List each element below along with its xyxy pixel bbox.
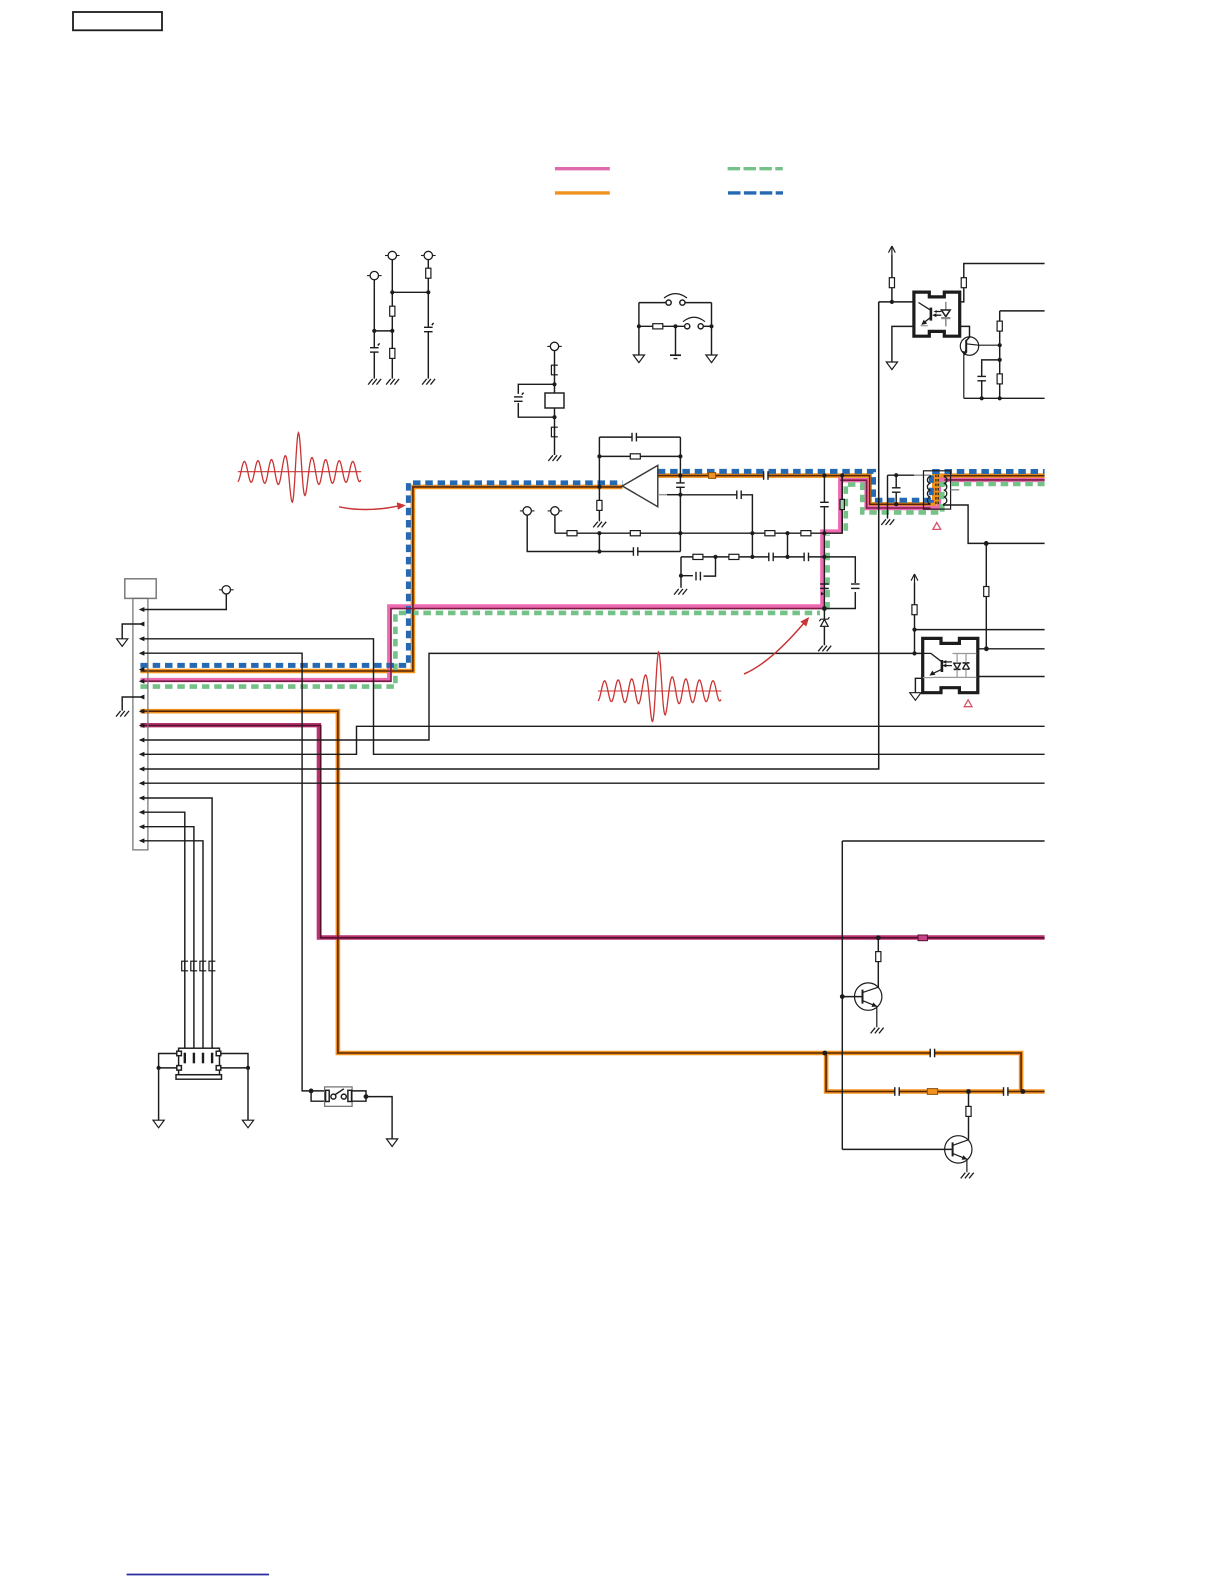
green dashed highlight along bundle through transformer to right edge (848, 484, 1045, 513)
optocoupler PC1 package (914, 292, 960, 336)
PC1 emitter gray tick (921, 325, 928, 327)
ferrite bead L2 on jack line (191, 961, 197, 971)
node J mid (673, 324, 677, 328)
wire node A1 to node A2 (374, 330, 392, 332)
terminal A2 (385, 251, 400, 259)
Q1 emitter arrowhead (962, 351, 967, 356)
node resistor bottom (998, 396, 1002, 400)
ground (signal) PC1 (886, 362, 897, 370)
node op-amp output (597, 485, 601, 489)
ground (earth bar) J mid (670, 354, 681, 356)
node pin13 (139, 781, 145, 786)
wire Q2 collector (877, 938, 879, 987)
node pink bottom corner (822, 606, 827, 611)
resistor bias rail mid (765, 531, 775, 536)
wire pin2 to signal ground (122, 624, 140, 639)
transformer core dashed lines (936, 475, 938, 506)
node row2 c (785, 555, 789, 559)
red arrow to RX path (744, 623, 804, 674)
node orange line to Q3 collector (966, 1089, 971, 1094)
PC1 emitter arrowhead (921, 320, 927, 325)
transformer secondary winding (944, 477, 947, 504)
resistor row2 mid (729, 554, 739, 559)
node orange loop left (822, 1051, 827, 1056)
jack left mount pad upper (177, 1051, 182, 1056)
node pin15 (139, 810, 145, 815)
hook switch left pad (326, 1090, 330, 1101)
node filter cap bottom (980, 396, 984, 400)
node row2 a (713, 555, 717, 559)
waveform sketch lower (598, 652, 721, 721)
ground (signal) below jack right (242, 1120, 253, 1128)
Q3 collector inner line (953, 1140, 969, 1146)
node pin11 (139, 752, 145, 757)
Q3 base bar (952, 1142, 954, 1156)
wire PC2 supply (914, 583, 916, 653)
node J left (637, 324, 641, 328)
wire pin4 down to hook switch (140, 653, 311, 1091)
capacitor row2 mid (769, 552, 773, 562)
dark core of orange input/transformer path (658, 476, 1045, 505)
node pin1 (139, 607, 145, 612)
resistor on that vertical (984, 587, 989, 597)
wire bottom rail to edge (964, 397, 1045, 399)
node pin12 (139, 767, 145, 772)
ground (signal) below hook switch (387, 1139, 398, 1147)
wire cap line below input2 (680, 495, 752, 533)
wire into hook switch left side (311, 1091, 326, 1101)
wire node to resistor to node (639, 325, 685, 327)
node input line to pink branch (840, 473, 844, 477)
resistor Q2 collector (876, 952, 881, 962)
node Q1 collector (998, 343, 1002, 347)
capacitor RC loop (696, 571, 700, 581)
PC2 diode right bar (963, 662, 970, 664)
wire Q3 collector (968, 1092, 970, 1140)
wire right branch down (711, 303, 713, 355)
wire ground stem (887, 475, 889, 518)
warning triangle below PC2 (964, 700, 972, 707)
op-amp input2 stub (658, 494, 667, 496)
wire input2 stub to vertical (667, 494, 680, 496)
Q3 emitter arrowhead (962, 1155, 968, 1160)
node fb right (678, 454, 682, 458)
pink highlight: branch along input bundle through transformer to right edge (840, 480, 1044, 508)
node bias rail end (822, 531, 826, 535)
wire RC corner to ground (680, 576, 682, 588)
connector CN body (133, 598, 148, 850)
legend blue dashed line (728, 191, 783, 194)
node pin2 (139, 622, 145, 627)
capacitor line shunt (891, 488, 901, 492)
wire pin14 down to modular jack (140, 798, 212, 1048)
crimson bead on long crimson line (918, 935, 927, 941)
wire PC1 cathode side to ground (892, 326, 914, 362)
filter row2 wire (681, 557, 855, 609)
node input2 junction (678, 493, 682, 497)
ground (chassis) left of pin7 (116, 711, 129, 717)
wire shunt branch down (823, 476, 825, 534)
modular jack base plate (176, 1075, 222, 1080)
PC1 light arrows (935, 312, 941, 316)
wire filter cap branch (982, 360, 1000, 398)
ferrite bead L1 on jack line (182, 961, 188, 971)
wire PC2 right top to edge (978, 648, 1045, 650)
node orange loop right (1021, 1089, 1026, 1094)
PC1 LED triangle (941, 310, 950, 317)
node crimson to Q2 collector (876, 935, 881, 940)
red arrowhead RX (800, 617, 809, 627)
wire parallel capacitor loop (518, 384, 554, 417)
transformer centre tap stub (951, 489, 960, 491)
resistor branch A2 upper (390, 306, 395, 316)
ground (signal) below jack left (153, 1120, 164, 1128)
node bias rail at left vertical (597, 531, 601, 535)
wire branch A2 (391, 260, 393, 379)
blue dashed highlight: op-amp input line through transformer to right edge (658, 471, 1045, 500)
ground (chassis) transformer primary (881, 519, 894, 525)
dark core of crimson pin9 path (140, 726, 1044, 938)
red arrowhead TX (397, 502, 406, 509)
ground (chassis) below output divider (593, 522, 606, 528)
node J right (709, 324, 713, 328)
surge element upper (551, 365, 557, 375)
capacitor branch A3 (424, 327, 434, 331)
Q1 collector line (966, 344, 1000, 345)
green dashed highlight up the pink branch (828, 485, 846, 610)
hook switch lever (335, 1089, 344, 1095)
orange bead on bottom orange line (927, 1089, 937, 1095)
node pin5 (139, 667, 145, 672)
legend green dashed line (728, 167, 783, 170)
Q1 base bar (965, 340, 967, 353)
hook switch right pad (348, 1090, 352, 1101)
PC1 phototransistor collector slant (919, 303, 930, 310)
wire pin1 to terminal (140, 594, 226, 610)
dark core of pink pin6 path (140, 477, 1044, 681)
PC2 diode gray frame (933, 654, 977, 678)
node B top (552, 382, 556, 386)
capacitor on T1 rail (633, 547, 637, 557)
wire pink branch with resistor (824, 476, 842, 534)
node PC2 right top (984, 646, 989, 651)
resistor pull-up (997, 321, 1002, 331)
node row2 on pink branch (822, 555, 826, 559)
ground (signal) J right (706, 355, 717, 363)
Q2 emitter inner line (863, 1001, 877, 1028)
jack left mount pad lower (177, 1066, 182, 1071)
node pin6 (139, 679, 145, 684)
PC2 emitter slant (931, 669, 942, 675)
node pin10 (139, 738, 145, 743)
op-amp right vertical (679, 437, 681, 551)
jack right mount pad lower (216, 1066, 221, 1071)
node pin8 (139, 709, 145, 714)
PC2 emitter gray rail (923, 677, 933, 679)
wire terminal T1 down and right rail (527, 515, 680, 551)
resistor PC2 supply (912, 605, 917, 615)
feedback second rail (599, 455, 680, 457)
capacitor filter (977, 376, 987, 380)
legend pink solid line (555, 167, 610, 170)
resistor branch A2 lower (390, 348, 395, 358)
ground (chassis) RC loop (674, 589, 687, 595)
op-amp U1 triangle (622, 465, 658, 506)
dark core of orange pin5 path (140, 487, 622, 671)
node fb left (597, 454, 601, 458)
supply arrow PC1 (889, 246, 896, 255)
warning triangle below transformer (933, 523, 941, 530)
ground (chassis) branch A3 (422, 379, 435, 385)
capacitor on lower orange line left (895, 1087, 899, 1097)
waveform sketch upper (238, 433, 361, 502)
resistor bias rail left (630, 531, 640, 536)
transformer T1 body box (924, 471, 951, 509)
node input line to shunt cap (822, 473, 826, 477)
PC2 phototransistor collector slant (923, 653, 941, 661)
node PC1 anode (890, 300, 894, 304)
resistor between jumpers (653, 324, 663, 329)
wire PC2 left cathode to ground (915, 678, 922, 692)
zener diode D1 (819, 617, 829, 626)
node bias rail at op-amp vertical (678, 531, 682, 535)
node hook switch input (309, 1089, 314, 1094)
varistor box (545, 393, 564, 408)
capacitor C-fb on top rail (632, 432, 636, 442)
PC1 LED top lead (945, 302, 947, 310)
capacitor inline on op-amp input line (764, 471, 768, 481)
wire node to PC1 and long vertical (879, 301, 914, 303)
wire jumper J1 to right branch (685, 302, 712, 304)
capacitor row2 right (804, 552, 808, 562)
wire jack right pads to ground (221, 1054, 248, 1121)
node pin17 (139, 838, 145, 843)
polarity tick branch A3 (432, 323, 434, 325)
ground (signal) J left (633, 355, 644, 363)
wire PC2 rail to edge (915, 629, 1045, 631)
node A1 (372, 329, 376, 333)
optocoupler PC2 package (923, 638, 978, 692)
wire left to jumper J1 (639, 302, 666, 304)
resistor lower right (997, 374, 1002, 384)
Q3 emitter inner line (953, 1153, 967, 1172)
footer blue rule (127, 1574, 269, 1576)
capacitor on right vertical (676, 483, 686, 487)
transformer interior orange column (935, 476, 940, 504)
node bias rail right (785, 531, 789, 535)
wire long vertical left (878, 302, 880, 769)
PC2 light arrows (946, 662, 952, 666)
wire pin11 route up to long line right (140, 726, 1044, 754)
surge element lower (551, 427, 557, 437)
orange highlight: connector pin8 wire down and along bottom to right edge (140, 711, 1021, 1091)
wire zener branch (823, 609, 825, 646)
hook switch SW1 outer box (325, 1087, 353, 1106)
node RC corner (679, 574, 683, 578)
resistor PC1 supply (889, 278, 894, 288)
hook switch contact circle left (331, 1094, 336, 1099)
PC1 emitter slant (922, 317, 931, 324)
resistor bias rail far left (567, 531, 577, 536)
wire jumper J2 to right node (703, 325, 711, 327)
wire primary ground line gray part (914, 474, 931, 476)
ground (chassis) branch A2 (386, 379, 399, 385)
node pin4 (139, 651, 145, 656)
wire jack left pads to ground (159, 1054, 177, 1121)
feedback top rail (599, 436, 680, 438)
resistor on pink branch (green) (840, 499, 844, 509)
resistor below output node (597, 500, 602, 510)
PC2 light arrowheads (942, 660, 946, 667)
wire short vertical between rails (598, 533, 600, 551)
node on lower line (984, 541, 989, 546)
terminal T1 (520, 507, 535, 515)
ground (signal) PC2 (910, 693, 921, 701)
page corner reference box (73, 12, 162, 30)
node shunt cap bottom (894, 502, 898, 506)
terminal above pin 1 (219, 586, 234, 594)
ground (earth bar) J mid lower tick (674, 358, 678, 360)
wire secondary bottom to lower line (944, 504, 1045, 544)
jack pin blade 2 (193, 1053, 195, 1064)
node T1 rail at left vertical (597, 549, 601, 553)
wire pink branch lower (823, 533, 825, 608)
ground (chassis) Q2 emitter (871, 1028, 884, 1034)
wire pin16 down to modular jack (140, 827, 194, 1048)
orange highlight: op-amp input line through line transformer to right edge (658, 476, 1045, 505)
PC2 diode left bar (954, 668, 961, 670)
transformer primary winding (927, 477, 930, 504)
Q2 emitter arrowhead (872, 1002, 878, 1007)
node jack left ground junction (157, 1066, 161, 1070)
node bias rail mid (750, 531, 754, 535)
resistor Q3 collector (966, 1106, 971, 1116)
wire pin13 long line to edge (140, 782, 1044, 784)
connector CN top shell box (125, 579, 156, 599)
PC2 diode left triangle (954, 663, 961, 669)
vertical row1-row2 link right (787, 533, 789, 557)
red arrow to TX path (339, 506, 398, 509)
jack pin blade 4 (211, 1053, 213, 1064)
green dashed highlight along pink pin6 path (140, 613, 820, 687)
orange highlight: lower branch of bottom orange loop (826, 1053, 1045, 1092)
node pin14 (139, 796, 145, 801)
right pull-up vertical (1000, 311, 1045, 398)
ground (signal) left of pin2 (117, 639, 128, 647)
jumper J1 right pin (680, 300, 685, 305)
jumper J2 left pin (685, 324, 690, 329)
node pin7 (139, 695, 145, 700)
crimson highlight: connector pin9 wire down and long line to right edge (140, 725, 1044, 937)
transistor Q1 circle (960, 337, 978, 355)
ground (chassis) Q3 emitter (961, 1173, 974, 1179)
terminal B1 (547, 342, 562, 350)
PC1 phototransistor bar (930, 308, 933, 321)
ground (chassis) branch B (548, 455, 561, 461)
wire pin3 long route down and right to edge (140, 639, 1044, 755)
orange bead on op-amp input line (709, 473, 716, 479)
orange highlight: connector pin5 wire up to op-amp output (140, 487, 622, 671)
wire primary top pin (930, 475, 932, 476)
resistor PC1 collector (961, 278, 966, 288)
wire PC2 right bottom to edge (978, 676, 1045, 678)
pink highlight: connector pin6 wire up and along to zener node (140, 477, 840, 680)
wire branch A3 (427, 260, 429, 379)
node shunt cap top (894, 473, 898, 477)
wire shunt cap (895, 475, 897, 504)
jumper J2 right pin (698, 324, 703, 329)
Q1 emitter line (964, 349, 966, 398)
node jack right ground junction (246, 1066, 250, 1070)
ferrite bead L4 on jack line (209, 961, 215, 971)
Q2 base bar (862, 990, 864, 1004)
wire branch A1 (373, 280, 375, 379)
node PC2 input (912, 651, 916, 655)
terminal T2 (548, 507, 563, 515)
node input line junction (678, 473, 682, 477)
wire branch line down to Q2 Q3 bases (842, 841, 1044, 1149)
Q3 base wire (842, 1148, 952, 1150)
legend orange solid line (555, 191, 610, 194)
wire PC1 collector up to supply line (960, 264, 1045, 302)
wire PC1 emitter to Q1 base (960, 326, 970, 340)
vertical row1-row2 link left (751, 533, 753, 557)
supply arrow PC2 (911, 574, 918, 583)
capacitor on right shunt branch (851, 584, 861, 588)
PC1 light arrowheads (932, 310, 937, 317)
wire vertical from transformer line to PC2 (985, 543, 987, 648)
jack pin blade 3 (202, 1053, 204, 1064)
wire supply to resistor (891, 255, 893, 302)
node B bottom (552, 415, 556, 419)
jumper J2 arc (683, 317, 705, 321)
Q2 collector inner line (863, 987, 879, 992)
resistor row2 left (693, 554, 703, 559)
capacitor parallel branch B (514, 397, 524, 401)
ferrite bead L3 on jack line (200, 961, 206, 971)
node A2 top (390, 290, 394, 294)
wire node A2 to node A3 (392, 291, 428, 293)
wire hook switch right to ground (352, 1091, 393, 1139)
terminal A1 (367, 271, 382, 279)
Q2 base wire (842, 996, 862, 998)
transistor Q3 circle (945, 1136, 972, 1163)
wire pin15 down to modular jack (140, 812, 184, 1048)
hook switch contact circle right (341, 1094, 346, 1099)
jumper J1 left pin (666, 300, 671, 305)
capacitor on pink branch lower (820, 583, 829, 585)
resistor bias rail far right (801, 531, 811, 536)
dark core of orange pin8 bottom path (140, 711, 1044, 1091)
bias rail R row (555, 532, 1045, 534)
PC1 LED bottom lead (945, 319, 947, 327)
capacitor on input2 RC line (737, 490, 741, 500)
wire left branch down (638, 303, 640, 355)
modular jack body (179, 1048, 220, 1075)
polarity tick branch A1 (378, 343, 380, 345)
transistor Q2 circle (855, 983, 882, 1010)
wire J mid down (675, 326, 677, 355)
wire pin12 route up right side (140, 302, 878, 769)
wire bias rail (555, 532, 825, 534)
wire RC loop (681, 557, 716, 576)
PC2 phototransistor bar (941, 660, 944, 672)
capacitor on shunt branch (820, 502, 830, 506)
jumper J1 arc (664, 294, 687, 298)
node PC2 supply rail (912, 628, 916, 632)
capacitor on lower orange line right (1004, 1087, 1008, 1097)
node pin3 (139, 636, 145, 641)
